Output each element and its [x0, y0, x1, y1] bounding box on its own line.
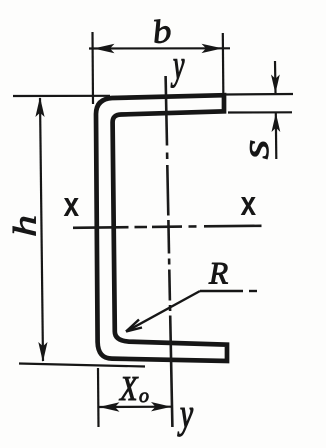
X0 arrow right	[151, 402, 172, 411]
b dimension extension line left	[91, 32, 94, 104]
h arrow up	[35, 97, 44, 117]
b dimension line	[89, 47, 230, 49]
label y (top)	[171, 59, 185, 87]
s dimension extension line top	[225, 93, 293, 96]
label h (rotated)	[13, 217, 36, 236]
b arrow right	[202, 44, 223, 53]
s arrow up	[272, 113, 281, 132]
h dimension extension line bottom	[19, 364, 145, 367]
h dimension line	[40, 98, 43, 361]
label R	[209, 263, 228, 284]
channel profile outline	[96, 95, 227, 361]
R leader arrow	[126, 291, 257, 332]
X0 dimension extension line left	[97, 368, 100, 427]
X0 dimension line	[98, 406, 172, 408]
label X0	[119, 377, 138, 400]
h dimension extension line top	[13, 95, 110, 97]
s arrow down	[271, 75, 280, 94]
b dimension extension line right	[222, 33, 225, 113]
x axis (dash-dot centerline)	[73, 226, 262, 228]
label s (rotated)	[250, 141, 268, 159]
label x (right)	[241, 197, 256, 215]
h arrow down	[38, 342, 47, 362]
X0 arrow left	[99, 402, 120, 411]
label x (left)	[64, 198, 79, 216]
label b	[154, 20, 170, 43]
label y (bottom)	[178, 408, 194, 436]
y axis (dash-dot centerline, slight slant)	[166, 76, 173, 427]
s arrow line top	[274, 61, 277, 93]
s arrow line bottom	[275, 113, 278, 159]
s dimension extension line bottom	[228, 111, 292, 113]
b arrow left	[94, 44, 115, 53]
